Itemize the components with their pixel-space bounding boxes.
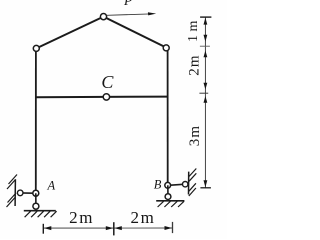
support B: wall hatching — [189, 169, 197, 197]
svg-text:2m: 2m — [131, 208, 156, 227]
hinge at apex — [100, 14, 106, 20]
support B: vertical link down — [167, 185, 169, 196]
dimension tick: bottom bar (support level) — [200, 187, 211, 189]
support A: vertical link down — [35, 193, 37, 206]
member: right rafter (apex to right eave) — [104, 17, 167, 48]
support A: wall line — [14, 179, 16, 206]
svg-text:2m: 2m — [187, 54, 203, 76]
hinge at right eave — [163, 45, 169, 51]
hinge C on beam — [103, 94, 109, 100]
load arrow P at apex — [107, 14, 150, 15]
member: left column (eave to support A) — [35, 48, 37, 193]
support A: ground hatching — [25, 211, 57, 217]
support A: roller hinge on ground — [33, 203, 39, 209]
dimension tick: below B — [172, 222, 174, 233]
support B: horizontal link to wall — [170, 184, 185, 185]
svg-text:P: P — [123, 0, 132, 8]
svg-text:C: C — [101, 72, 114, 92]
dimension tick: top bar (apex level) — [200, 16, 211, 18]
dimension arrows on vertical chain — [204, 18, 208, 188]
support B: wall line — [188, 172, 190, 195]
member: right column (eave to support B) — [167, 49, 169, 186]
support A: ground line — [24, 210, 56, 212]
svg-text:B: B — [154, 177, 162, 191]
support B: ground hatching — [158, 201, 184, 207]
member: beam through C — [36, 96, 168, 99]
svg-text:2m: 2m — [69, 208, 94, 227]
dimension tick: beam level — [199, 92, 208, 94]
support A: horizontal link to wall — [21, 192, 34, 194]
dimension tick: eave level — [200, 45, 210, 47]
svg-text:3m: 3m — [187, 125, 203, 147]
support B: link hinge at wall — [183, 182, 188, 187]
hinge at left eave — [33, 45, 39, 51]
dimension tick: below C — [113, 222, 115, 235]
support B: roller hinge on ground — [165, 194, 171, 200]
support A: link hinge at wall — [17, 190, 23, 196]
member: left rafter (apex to left eave) — [36, 17, 103, 49]
dimension line: bottom horizontal chain — [43, 227, 114, 229]
svg-text:A: A — [47, 178, 56, 192]
support B: pin circle — [165, 182, 171, 188]
dimension tick: below A — [42, 224, 44, 234]
svg-text:1m: 1m — [186, 17, 201, 42]
support A: wall hatching — [7, 175, 18, 208]
support A: pin circle — [33, 190, 39, 196]
dimension arrows on bottom chain — [44, 226, 172, 230]
dimension line: right vertical chain — [204, 17, 206, 188]
support B: ground line — [156, 200, 184, 202]
